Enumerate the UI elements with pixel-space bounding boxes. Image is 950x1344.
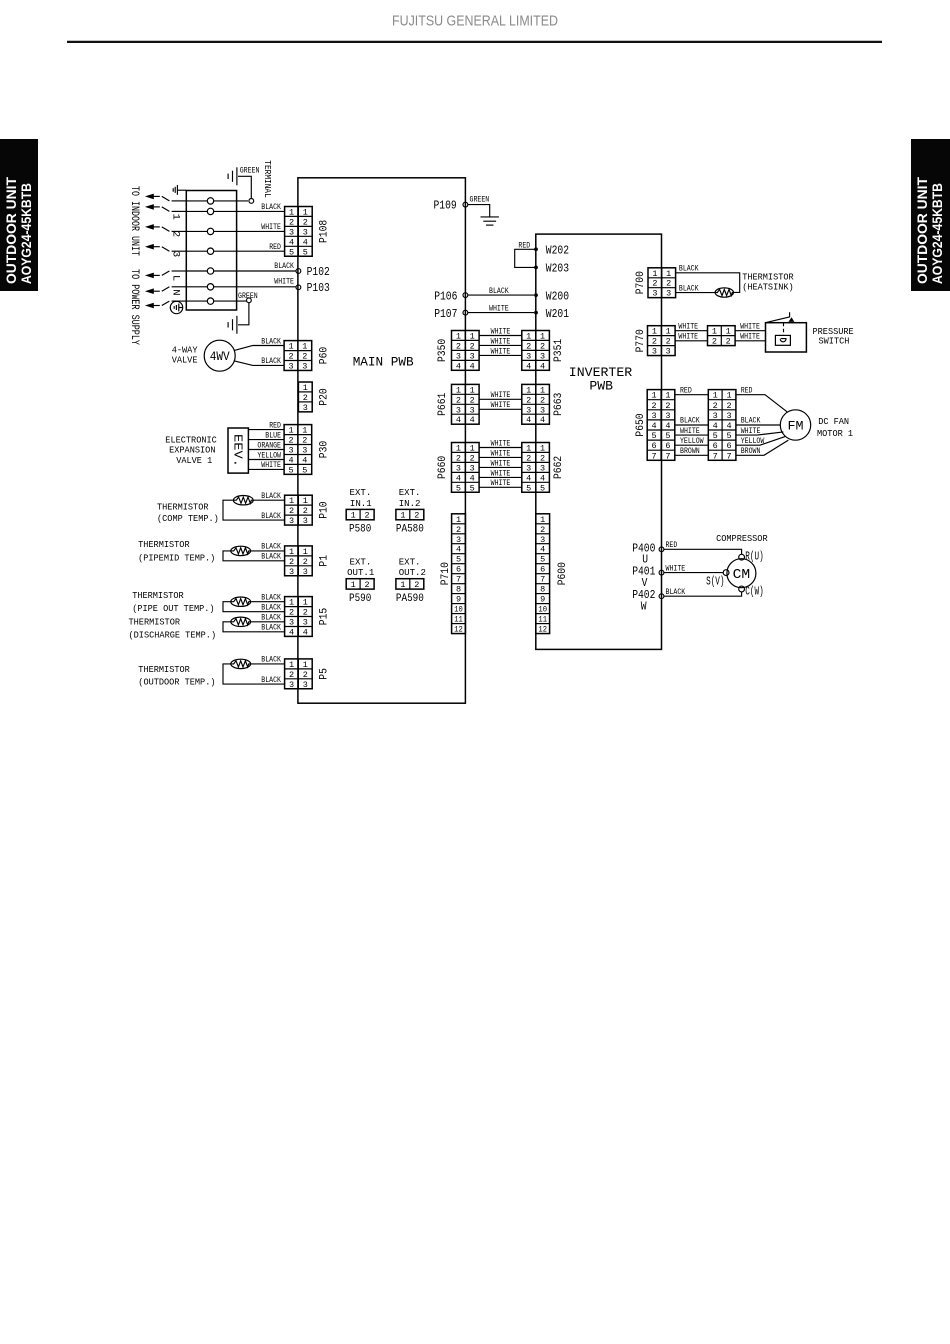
- svg-text:P350: P350: [437, 339, 449, 362]
- svg-text:C(W): C(W): [745, 586, 763, 599]
- svg-text:P5: P5: [319, 668, 331, 680]
- svg-text:5: 5: [665, 431, 670, 441]
- svg-text:3: 3: [302, 446, 307, 456]
- svg-text:4: 4: [540, 545, 545, 555]
- svg-text:3: 3: [303, 618, 308, 628]
- svg-text:BROWN: BROWN: [741, 448, 761, 456]
- svg-text:PA590: PA590: [396, 593, 424, 605]
- svg-text:BLACK: BLACK: [261, 204, 281, 212]
- connector P351: [522, 331, 550, 372]
- wire BROWN joint to fan motor: [736, 440, 788, 455]
- svg-text:OUT.2: OUT.2: [399, 567, 426, 578]
- node P402 W wire BLACK to C(W): [659, 594, 664, 599]
- svg-text:EXT.: EXT.: [399, 487, 421, 498]
- svg-text:3: 3: [303, 403, 308, 413]
- earth symbol bottom: [228, 316, 237, 334]
- joint connector fan: [708, 390, 736, 462]
- svg-text:3: 3: [456, 405, 461, 415]
- svg-text:VALVE: VALVE: [172, 355, 198, 366]
- svg-text:1: 1: [713, 391, 718, 401]
- svg-text:2: 2: [303, 670, 308, 680]
- svg-text:(PIPEMID TEMP.): (PIPEMID TEMP.): [138, 552, 215, 563]
- svg-text:WHITE: WHITE: [491, 392, 511, 400]
- svg-text:WHITE: WHITE: [261, 224, 281, 232]
- svg-text:1: 1: [470, 385, 475, 395]
- svg-text:1: 1: [726, 391, 731, 401]
- svg-text:3: 3: [526, 351, 531, 361]
- svg-text:THERMISTOR: THERMISTOR: [157, 501, 209, 512]
- svg-text:1: 1: [470, 444, 475, 454]
- svg-text:2: 2: [289, 670, 294, 680]
- svg-text:OUTDOOR UNIT: OUTDOOR UNIT: [4, 176, 19, 284]
- wires WHITE joint to pressure switch: [735, 330, 765, 332]
- svg-text:P106: P106: [434, 290, 457, 303]
- connector P20: [298, 382, 312, 413]
- svg-text:R(U): R(U): [745, 551, 763, 564]
- svg-text:FUJITSU GENERAL LIMITED: FUJITSU GENERAL LIMITED: [392, 14, 558, 30]
- wire RED joint to fan motor: [736, 395, 788, 413]
- terminal circles in block: [186, 200, 207, 202]
- svg-text:1: 1: [456, 385, 461, 395]
- svg-text:2: 2: [540, 341, 545, 351]
- svg-text:P15: P15: [319, 608, 331, 625]
- svg-text:1: 1: [302, 426, 307, 436]
- svg-text:3: 3: [288, 446, 293, 456]
- svg-text:3: 3: [289, 567, 294, 577]
- svg-text:W202: W202: [546, 245, 569, 258]
- joint connector pressure switch: [708, 326, 736, 347]
- svg-text:VALVE 1: VALVE 1: [176, 455, 212, 466]
- svg-text:EXT.: EXT.: [350, 487, 372, 498]
- svg-text:2: 2: [470, 453, 475, 463]
- svg-text:7: 7: [652, 451, 657, 461]
- svg-text:WHITE: WHITE: [740, 334, 760, 342]
- svg-text:2: 2: [288, 352, 293, 362]
- svg-text:3: 3: [303, 680, 308, 690]
- svg-text:4: 4: [456, 415, 461, 425]
- svg-text:MOTOR 1: MOTOR 1: [817, 428, 853, 439]
- svg-text:1: 1: [400, 511, 405, 521]
- svg-text:2: 2: [289, 608, 294, 618]
- svg-text:8: 8: [456, 585, 461, 595]
- connector P5: [285, 659, 313, 690]
- svg-text:12: 12: [454, 625, 463, 635]
- svg-text:BLACK: BLACK: [680, 418, 700, 426]
- svg-text:4: 4: [526, 361, 531, 371]
- svg-text:6: 6: [456, 565, 461, 575]
- svg-text:2: 2: [288, 436, 293, 446]
- svg-text:OUT.1: OUT.1: [347, 567, 374, 578]
- wire BLACK terminal1 to P108 pin1: [214, 210, 285, 212]
- svg-text:1: 1: [288, 342, 293, 352]
- node P106 wire BLACK to W200: [463, 293, 468, 298]
- svg-text:BLACK: BLACK: [261, 625, 281, 633]
- svg-text:P20: P20: [319, 388, 331, 405]
- svg-text:BLACK: BLACK: [261, 595, 281, 603]
- svg-text:10: 10: [454, 605, 463, 615]
- svg-text:5: 5: [540, 483, 545, 493]
- connector P710: [452, 514, 466, 635]
- svg-text:GREEN: GREEN: [240, 168, 260, 176]
- svg-text:2: 2: [652, 279, 657, 289]
- svg-text:3: 3: [726, 411, 731, 421]
- svg-text:P600: P600: [557, 562, 569, 585]
- node P401 V wire WHITE to S(V): [659, 570, 664, 575]
- svg-text:MAIN PWB: MAIN PWB: [353, 354, 414, 369]
- svg-text:1: 1: [351, 580, 356, 590]
- svg-text:1: 1: [526, 332, 531, 342]
- svg-text:BLACK: BLACK: [261, 615, 281, 623]
- svg-text:1: 1: [652, 269, 657, 279]
- svg-text:1: 1: [456, 444, 461, 454]
- svg-text:5: 5: [526, 483, 531, 493]
- svg-text:2: 2: [665, 401, 670, 411]
- green earth wire from terminal 1 (top): [214, 200, 248, 202]
- connector P60: [284, 341, 312, 372]
- wire BLACK P700-1 to heatsink thermistor: [676, 273, 740, 293]
- svg-text:P700: P700: [635, 271, 647, 294]
- connector P661: [452, 384, 480, 425]
- svg-text:P107: P107: [434, 308, 457, 321]
- svg-text:WHITE: WHITE: [491, 348, 511, 356]
- svg-text:4: 4: [726, 421, 731, 431]
- svg-text:3: 3: [289, 618, 294, 628]
- svg-text:P661: P661: [437, 392, 449, 416]
- wire BLACK terminal L to P102: [214, 270, 296, 272]
- svg-text:11: 11: [454, 615, 463, 625]
- svg-text:3: 3: [540, 405, 545, 415]
- left edge tab OUTDOOR UNIT AOYG24-45KBTB: [0, 139, 38, 291]
- svg-text:5: 5: [713, 431, 718, 441]
- svg-text:WHITE: WHITE: [491, 338, 511, 346]
- svg-text:3: 3: [713, 411, 718, 421]
- svg-text:BLACK: BLACK: [741, 418, 761, 426]
- svg-text:SWITCH: SWITCH: [819, 336, 850, 347]
- svg-text:BLUE: BLUE: [265, 432, 281, 440]
- svg-text:1: 1: [652, 391, 657, 401]
- svg-text:4: 4: [303, 237, 308, 247]
- EEV coil box: [228, 428, 248, 473]
- svg-text:2: 2: [365, 511, 370, 521]
- svg-text:5: 5: [288, 465, 293, 475]
- svg-text:3: 3: [456, 463, 461, 473]
- svg-text:RED: RED: [269, 244, 281, 252]
- wire BROWN P650-7 to joint: [675, 454, 709, 456]
- svg-text:4: 4: [289, 237, 294, 247]
- wire WHITE EEV to P30: [248, 468, 284, 470]
- svg-text:OUTDOOR UNIT: OUTDOOR UNIT: [915, 176, 930, 284]
- svg-text:P663: P663: [553, 393, 565, 416]
- svg-text:1: 1: [712, 327, 717, 337]
- svg-text:3: 3: [540, 351, 545, 361]
- svg-text:2: 2: [289, 506, 294, 516]
- earth symbol at P109: [481, 217, 499, 225]
- svg-text:WHITE: WHITE: [678, 334, 698, 342]
- svg-text:3: 3: [470, 463, 475, 473]
- svg-text:RED: RED: [741, 387, 753, 395]
- svg-text:1: 1: [400, 580, 405, 590]
- connector P30: [284, 425, 312, 476]
- svg-text:1: 1: [526, 385, 531, 395]
- compressor terminal S(V): [723, 570, 729, 576]
- svg-text:2: 2: [540, 395, 545, 405]
- svg-text:3: 3: [303, 567, 308, 577]
- svg-text:WHITE: WHITE: [489, 305, 509, 313]
- svg-text:AOYG24-45KBTB: AOYG24-45KBTB: [19, 183, 34, 284]
- wire BLACK P650-4 to joint: [675, 424, 709, 426]
- connector P108: [285, 207, 313, 258]
- svg-text:BLACK: BLACK: [274, 263, 294, 271]
- svg-text:3: 3: [665, 411, 670, 421]
- svg-text:(PIPE OUT TEMP.): (PIPE OUT TEMP.): [132, 603, 214, 614]
- svg-text:3: 3: [289, 227, 294, 237]
- svg-text:1: 1: [170, 214, 182, 220]
- svg-text:2: 2: [303, 608, 308, 618]
- svg-text:2: 2: [526, 453, 531, 463]
- svg-text:4WV: 4WV: [210, 349, 230, 364]
- red jumper W202-W203: [515, 249, 536, 267]
- svg-text:THERMISTOR: THERMISTOR: [138, 664, 190, 675]
- svg-text:TO POWER SUPPLY: TO POWER SUPPLY: [128, 269, 140, 345]
- svg-text:10: 10: [538, 605, 547, 615]
- svg-text:6: 6: [540, 565, 545, 575]
- svg-text:P102: P102: [307, 266, 330, 279]
- connector P660: [452, 443, 480, 494]
- svg-text:YELLOW: YELLOW: [257, 452, 281, 460]
- svg-text:2: 2: [456, 395, 461, 405]
- svg-text:1: 1: [303, 598, 308, 608]
- svg-text:3: 3: [666, 289, 671, 299]
- svg-text:P590: P590: [349, 593, 372, 605]
- svg-text:BLACK: BLACK: [261, 605, 281, 613]
- svg-text:2: 2: [526, 341, 531, 351]
- svg-text:DC FAN: DC FAN: [818, 416, 849, 427]
- svg-text:4: 4: [456, 545, 461, 555]
- wire arrows to power supply (L,N,earth): [145, 271, 186, 278]
- svg-text:WHITE: WHITE: [740, 324, 760, 332]
- svg-text:P710: P710: [440, 562, 452, 585]
- wire BLACK joint to fan motor: [736, 424, 780, 426]
- svg-text:PA580: PA580: [396, 524, 424, 536]
- compressor motor CM: [727, 559, 756, 588]
- connector P650: [647, 390, 675, 462]
- wire BLACK 4WV to P60 pin3: [234, 361, 284, 366]
- svg-text:7: 7: [540, 575, 545, 585]
- svg-text:THERMISTOR: THERMISTOR: [132, 590, 184, 601]
- svg-text:7: 7: [456, 575, 461, 585]
- wire WHITE joint to fan motor: [736, 432, 783, 435]
- svg-text:GREEN: GREEN: [238, 293, 258, 301]
- svg-text:P770: P770: [635, 329, 647, 352]
- svg-text:BLACK: BLACK: [261, 544, 281, 552]
- svg-text:P662: P662: [553, 456, 565, 479]
- svg-text:1: 1: [470, 332, 475, 342]
- svg-text:BLACK: BLACK: [261, 677, 281, 685]
- svg-text:GREEN: GREEN: [470, 197, 490, 205]
- svg-text:AOYG24-45KBTB: AOYG24-45KBTB: [930, 183, 945, 284]
- wire WHITE P350-3 to P351-3: [479, 354, 522, 356]
- svg-text:2: 2: [456, 341, 461, 351]
- svg-text:BLACK: BLACK: [261, 657, 281, 665]
- node P109 with green earth: [463, 202, 468, 207]
- svg-text:1: 1: [351, 511, 356, 521]
- svg-text:WHITE: WHITE: [491, 460, 511, 468]
- right edge tab OUTDOOR UNIT AOYG24-45KBTB: [911, 139, 950, 291]
- svg-text:11: 11: [538, 615, 547, 625]
- svg-text:3: 3: [526, 463, 531, 473]
- svg-text:L: L: [170, 275, 182, 281]
- svg-text:3: 3: [652, 289, 657, 299]
- svg-text:4: 4: [540, 473, 545, 483]
- wire BLUE EEV to P30: [248, 439, 284, 441]
- svg-text:1: 1: [289, 598, 294, 608]
- svg-text:1: 1: [526, 444, 531, 454]
- svg-text:RED: RED: [680, 387, 692, 395]
- svg-text:3: 3: [540, 535, 545, 545]
- fan motor FM: [780, 410, 810, 440]
- svg-text:BLACK: BLACK: [489, 288, 509, 296]
- svg-text:BLACK: BLACK: [261, 513, 281, 521]
- svg-text:5: 5: [456, 483, 461, 493]
- svg-text:3: 3: [289, 516, 294, 526]
- svg-text:EXT.: EXT.: [350, 556, 372, 567]
- wire WHITE terminal N to P103: [214, 286, 296, 288]
- svg-text:1: 1: [456, 332, 461, 342]
- node P400 U wire RED to R(U): [659, 547, 664, 552]
- svg-text:1: 1: [666, 269, 671, 279]
- svg-text:5: 5: [303, 247, 308, 257]
- svg-text:3: 3: [303, 516, 308, 526]
- svg-text:WHITE: WHITE: [261, 462, 281, 470]
- svg-text:RED: RED: [269, 422, 281, 430]
- svg-text:(HEATSINK): (HEATSINK): [742, 281, 794, 292]
- svg-text:5: 5: [540, 555, 545, 565]
- svg-text:WHITE: WHITE: [491, 328, 511, 336]
- svg-text:4: 4: [665, 421, 670, 431]
- svg-text:4: 4: [713, 421, 718, 431]
- svg-text:2: 2: [652, 401, 657, 411]
- svg-text:WHITE: WHITE: [274, 279, 294, 287]
- svg-text:P109: P109: [434, 199, 457, 212]
- wire BLACK 4WV to P60 pin1: [234, 346, 284, 351]
- svg-text:2: 2: [303, 393, 308, 403]
- wire WHITE P660-4 to P662-4: [479, 476, 522, 478]
- svg-text:P660: P660: [437, 456, 449, 479]
- svg-text:V: V: [642, 577, 648, 590]
- connector P600: [536, 514, 550, 635]
- svg-text:12: 12: [538, 625, 547, 635]
- svg-text:2: 2: [470, 395, 475, 405]
- svg-text:2: 2: [303, 506, 308, 516]
- svg-text:3: 3: [289, 680, 294, 690]
- svg-text:1: 1: [456, 515, 461, 525]
- svg-text:4: 4: [526, 415, 531, 425]
- wires WHITE P770 to joint connector: [675, 330, 707, 332]
- svg-text:3: 3: [288, 362, 293, 372]
- svg-text:3: 3: [652, 347, 657, 357]
- header rule: [67, 41, 882, 43]
- svg-text:5: 5: [302, 465, 307, 475]
- connector P350: [452, 331, 480, 372]
- svg-text:BLACK: BLACK: [261, 493, 281, 501]
- svg-text:2: 2: [365, 580, 370, 590]
- wire YELLOW joint to fan motor: [736, 436, 785, 445]
- svg-text:2: 2: [652, 337, 657, 347]
- wire RED P650-1 to joint: [675, 394, 709, 396]
- svg-text:YELLOW: YELLOW: [741, 438, 765, 446]
- compressor terminal C(W): [739, 586, 745, 592]
- svg-text:6: 6: [652, 441, 657, 451]
- node P102: [296, 269, 301, 274]
- svg-text:1: 1: [303, 208, 308, 218]
- svg-text:4: 4: [288, 455, 293, 465]
- svg-text:2: 2: [712, 337, 717, 347]
- svg-text:BLACK: BLACK: [679, 266, 699, 274]
- terminal block: [186, 191, 236, 311]
- svg-text:IN.2: IN.2: [399, 498, 421, 509]
- connector P10: [285, 495, 313, 526]
- svg-text:2: 2: [526, 395, 531, 405]
- svg-text:W201: W201: [546, 308, 569, 321]
- svg-text:6: 6: [665, 441, 670, 451]
- svg-text:2: 2: [302, 352, 307, 362]
- svg-text:(OUTDOOR TEMP.): (OUTDOOR TEMP.): [138, 677, 215, 688]
- svg-text:6: 6: [726, 441, 731, 451]
- svg-text:WHITE: WHITE: [741, 428, 761, 436]
- wire YELLOW EEV to P30: [248, 459, 284, 461]
- svg-text:4: 4: [540, 361, 545, 371]
- svg-text:1: 1: [540, 332, 545, 342]
- wire ORANGE EEV to P30: [248, 449, 284, 451]
- node P107 wire WHITE to W201: [463, 310, 468, 315]
- svg-text:3: 3: [302, 362, 307, 372]
- svg-text:EEV.: EEV.: [231, 434, 244, 467]
- svg-text:P650: P650: [635, 413, 647, 436]
- svg-text:WHITE: WHITE: [491, 450, 511, 458]
- svg-text:4: 4: [540, 415, 545, 425]
- svg-text:BLACK: BLACK: [261, 358, 281, 366]
- svg-text:1: 1: [302, 342, 307, 352]
- svg-text:WHITE: WHITE: [666, 565, 686, 573]
- 4-way valve coil 4WV: [204, 340, 235, 371]
- svg-text:BLACK: BLACK: [261, 554, 281, 562]
- connector P662: [522, 443, 550, 494]
- svg-text:7: 7: [665, 451, 670, 461]
- svg-text:2: 2: [470, 341, 475, 351]
- svg-text:7: 7: [726, 451, 731, 461]
- svg-text:ORANGE: ORANGE: [257, 442, 281, 450]
- thermistor (heatsink) symbol: [715, 288, 733, 297]
- svg-text:2: 2: [289, 557, 294, 567]
- svg-text:W203: W203: [546, 263, 569, 276]
- svg-text:1: 1: [540, 444, 545, 454]
- svg-text:5: 5: [456, 555, 461, 565]
- wire WHITE P350-2 to P351-2: [479, 344, 522, 346]
- svg-text:8: 8: [540, 585, 545, 595]
- compressor terminal R(U): [739, 554, 745, 560]
- svg-text:6: 6: [713, 441, 718, 451]
- svg-text:IN.1: IN.1: [350, 498, 372, 509]
- svg-text:2: 2: [303, 557, 308, 567]
- wire BLACK P700-3 to heatsink thermistor: [676, 292, 716, 294]
- svg-text:WHITE: WHITE: [678, 324, 698, 332]
- wire WHITE P350-1 to P351-1: [479, 335, 522, 337]
- svg-text:2: 2: [540, 453, 545, 463]
- svg-text:4: 4: [470, 415, 475, 425]
- svg-text:4: 4: [470, 361, 475, 371]
- connector P15: [285, 597, 313, 638]
- wire WHITE P660-3 to P662-3: [479, 466, 522, 468]
